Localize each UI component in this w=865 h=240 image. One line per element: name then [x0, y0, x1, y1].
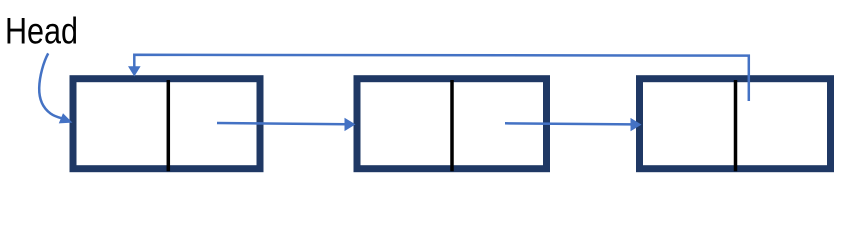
head pointer arrowhead [59, 113, 73, 123]
svg-text:Head: Head [5, 10, 78, 51]
node N3 divider [734, 80, 738, 171]
node N1 box [73, 79, 260, 169]
node N3 box [640, 79, 831, 169]
node N2 box [357, 79, 547, 169]
next pointer arrow N1 to N2 wire [217, 123, 346, 124]
circular link arrow N3 back to N1 wire [134, 55, 749, 101]
head pointer curved arrow [39, 53, 61, 118]
node N2 divider [450, 80, 454, 171]
circular link arrowhead [128, 66, 141, 76]
next pointer arrow N2 to N3 wire [505, 123, 632, 124]
next pointer arrow N2 to N3 arrowhead [631, 118, 642, 131]
node N1 divider [167, 80, 171, 171]
next pointer arrow N1 to N2 arrowhead [345, 118, 356, 131]
